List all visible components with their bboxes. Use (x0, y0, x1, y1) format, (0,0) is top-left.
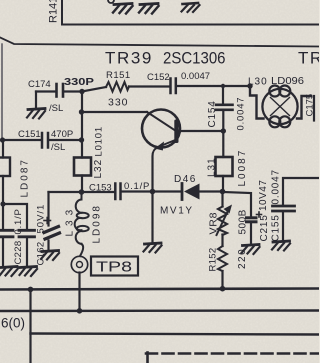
resistor R152 220 (208, 248, 249, 272)
ground (electrolytic) (41, 251, 59, 261)
ground (C228) (0, 267, 18, 277)
node at C154 tap (221, 84, 225, 88)
node emitter junction (150, 189, 156, 195)
capacitor C152 0.0047 (147, 71, 210, 83)
ground (top 2) (139, 4, 159, 14)
ground (C174) (27, 109, 45, 119)
inductor L30 L0096 (248, 76, 304, 88)
wire long horizontal bus with left diagonal (0, 38, 319, 47)
wire C174 ground stub (35, 92, 37, 109)
wire base (82, 111, 148, 113)
electrolytic capacitor (+ 50V/1) (47, 192, 49, 226)
inductor L33 LD098 coil (65, 204, 103, 243)
wire vertical to bottom edge (29, 289, 31, 363)
capacitor C154 0047 (207, 97, 247, 131)
capacitor C175 (305, 94, 316, 117)
bus line 1 (0, 289, 319, 290)
node L33 top (79, 189, 85, 195)
wire collector to L31 (222, 131, 224, 157)
wire left edge vertical (1, 44, 3, 140)
capacitor C215 10V47 (258, 180, 270, 242)
ground (lower C152) (20, 267, 38, 277)
ground (top 3) (182, 3, 200, 12)
wire TP8 to bus (78, 273, 80, 311)
variable resistor VR8 500B (208, 209, 249, 234)
capacitor C174 (28, 76, 94, 114)
dashed block outline (146, 352, 319, 355)
node collector junction (221, 128, 226, 133)
transistor heading TR39 2SC1306 (105, 49, 320, 68)
capacitor C152 branch (lower) (36, 204, 47, 266)
node diode/VR8 junction (220, 189, 226, 195)
wire top block border (62, 0, 319, 25)
wire main column upper (81, 92, 83, 158)
transistor TR39 (142, 110, 180, 148)
bus line 3 (31, 334, 320, 335)
inductor L31 L0087 box (207, 149, 249, 187)
node junction at C174 output (79, 89, 84, 94)
capacitor C228 branch (13, 208, 24, 264)
resistor R151 330 (106, 70, 131, 109)
ground (C215) (242, 245, 260, 255)
ground (C155) (272, 241, 290, 251)
wire to R151 (82, 87, 106, 92)
capacitor C153 0.1/P (89, 181, 150, 194)
node small circle top (108, 0, 114, 3)
wire collector (180, 130, 224, 132)
ground (top 1) (113, 4, 133, 14)
wire node row y192 (49, 191, 82, 193)
test point TP8 (71, 256, 87, 272)
net label 6(0) (1, 316, 25, 331)
bus line 2 (0, 309, 319, 312)
resistor R141 label (48, 0, 60, 23)
inductor L32 L0101 box (93, 126, 105, 178)
diode D46 MV1Y (160, 174, 197, 217)
capacitor C151 470P (18, 129, 73, 153)
ground (emitter) (151, 193, 153, 243)
capacitor C155 0.0047 (271, 169, 282, 241)
